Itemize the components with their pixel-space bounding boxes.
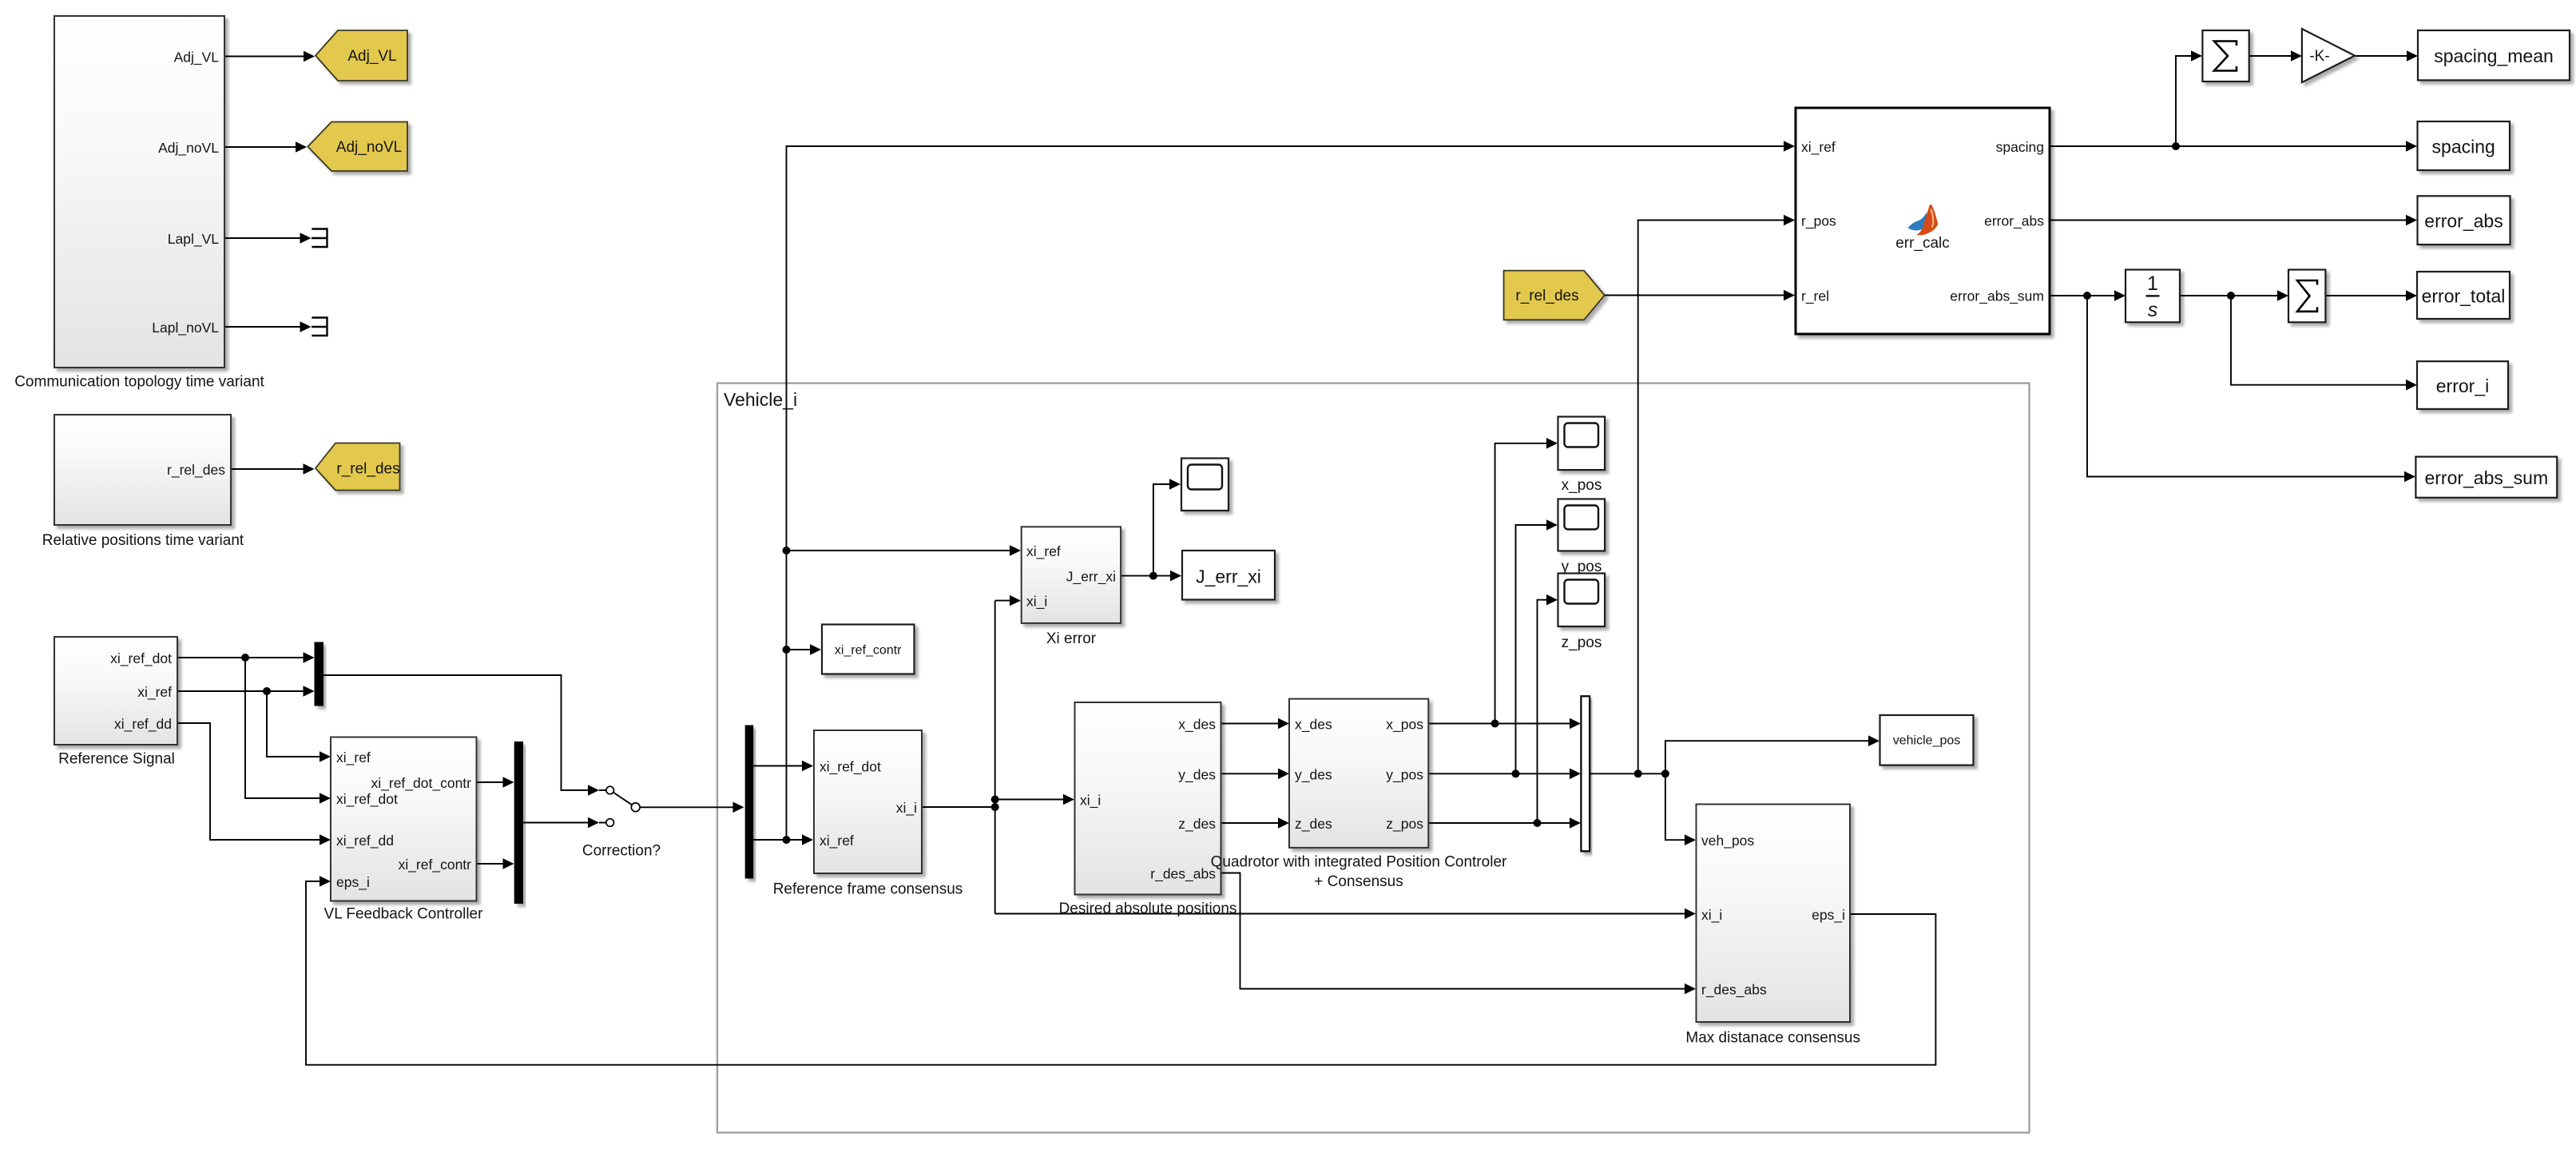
wire Lapl_VL to terminator — [224, 233, 312, 244]
svg-text:Adj_VL: Adj_VL — [347, 48, 396, 65]
svg-text:Relative positions time varian: Relative positions time variant — [42, 532, 244, 549]
wire Xi error output to J_err_xi display — [1121, 571, 1181, 582]
junction z_pos — [1534, 819, 1542, 827]
outport spacing_mean — [2418, 30, 2570, 80]
block xi_ref_contr — [822, 625, 915, 674]
block Reference frame consensus — [773, 730, 963, 898]
wire xi_ref_dd to VL Feedback Controller — [177, 723, 331, 845]
svg-text:spacing_mean: spacing_mean — [2434, 46, 2554, 66]
svg-text:xi_ref: xi_ref — [137, 684, 172, 701]
svg-text:x_des: x_des — [1295, 717, 1332, 734]
wire long xi_ref vertical and top run to err_calc — [787, 141, 1796, 840]
block VL Feedback Controller — [324, 738, 484, 923]
outport spacing — [2418, 121, 2511, 170]
svg-text:err_calc: err_calc — [1895, 235, 1950, 252]
svg-text:Max distanace consensus: Max distanace consensus — [1685, 1030, 1860, 1047]
wire xi_ref_dot from Reference Signal to mux — [177, 652, 315, 663]
svg-text:z_pos: z_pos — [1386, 816, 1423, 833]
wire branch x_pos to scope — [1495, 438, 1558, 724]
scope z_pos — [1558, 574, 1606, 652]
svg-text:Communication topology time va: Communication topology time variant — [14, 374, 264, 391]
From tag r_rel_des — [1504, 271, 1605, 320]
wire Reference frame consensus xi_i output — [922, 601, 995, 914]
svg-text:error_abs_sum: error_abs_sum — [1950, 288, 2044, 305]
subsystem boundary Vehicle_i — [717, 384, 2030, 1133]
svg-text:J_err_xi: J_err_xi — [1066, 569, 1116, 586]
wire y_des — [1221, 769, 1290, 780]
wire integrator to sum2 — [2180, 290, 2288, 301]
junction spacing branch — [2172, 142, 2180, 150]
svg-text:+ Consensus: + Consensus — [1314, 873, 1403, 890]
svg-text:vehicle_pos: vehicle_pos — [1893, 734, 1961, 748]
svg-text:x_pos: x_pos — [1562, 477, 1602, 494]
outport error_abs_sum — [2415, 457, 2557, 498]
junction xi_ref vertical at demux out2 — [783, 836, 791, 844]
svg-text:Reference Signal: Reference Signal — [58, 751, 175, 768]
wire branch z_pos to scope — [1538, 594, 1558, 823]
wire branch y_pos to scope — [1516, 519, 1558, 773]
svg-text:xi_ref_dot: xi_ref_dot — [336, 791, 398, 808]
svg-text:Lapl_noVL: Lapl_noVL — [152, 320, 219, 336]
svg-text:r_rel_des: r_rel_des — [1515, 288, 1578, 304]
wire branch xi_ref_dot down to VL Feedback Controller — [245, 658, 331, 804]
svg-text:r_rel: r_rel — [1801, 288, 1829, 305]
svg-text:xi_ref: xi_ref — [336, 749, 371, 766]
svg-text:xi_ref_dd: xi_ref_dd — [336, 833, 394, 849]
svg-text:Lapl_VL: Lapl_VL — [168, 231, 219, 248]
wire gain to spacing_mean — [2355, 50, 2418, 62]
junction r_pos — [1634, 769, 1642, 777]
svg-text:error_abs: error_abs — [1984, 213, 2044, 230]
junction J_err_xi branch — [1149, 572, 1157, 580]
wire x_des — [1221, 718, 1290, 730]
svg-text:r_rel_des: r_rel_des — [336, 461, 399, 478]
junction xi_ref branch — [263, 687, 271, 695]
block Quadrotor with integrated Position Controler + Consensus — [1211, 699, 1507, 890]
wire branch error_abs_sum down to outport — [2087, 296, 2415, 482]
svg-text:xi_ref: xi_ref — [1026, 543, 1061, 560]
wire branch to Max distance consensus xi_i — [995, 908, 1696, 920]
wire mux2 output to switch input 2 — [523, 817, 606, 829]
svg-text:Quadrotor with integrated Posi: Quadrotor with integrated Position Contr… — [1211, 854, 1507, 871]
svg-text:Xi error: Xi error — [1046, 630, 1097, 647]
wire branch to Xi error xi_i — [995, 595, 1021, 606]
wire demux out1 to Reference frame consensus xi_ref_dot — [753, 761, 813, 772]
block Relative positions time variant — [42, 415, 244, 549]
manual switch Correction? — [582, 786, 661, 859]
svg-text:xi_ref_dot: xi_ref_dot — [820, 759, 881, 776]
svg-text:xi_ref: xi_ref — [820, 833, 854, 849]
svg-text:VL Feedback Controller: VL Feedback Controller — [324, 906, 484, 923]
wire r_rel_des to goto tag — [231, 463, 315, 475]
terminator for Lapl_VL — [312, 229, 327, 248]
wire error_abs to outport — [2050, 215, 2417, 226]
integrator block 1/s — [2125, 270, 2180, 323]
junction x_pos — [1491, 720, 1499, 728]
svg-text:Reference frame consensus: Reference frame consensus — [773, 881, 963, 898]
outport error_abs — [2418, 196, 2511, 245]
svg-text:x_des: x_des — [1178, 717, 1216, 734]
wire branch down to error_i — [2231, 296, 2417, 391]
wire branch to xi_ref_contr block — [787, 644, 822, 655]
mux1 black bar — [315, 642, 324, 706]
svg-text:xi_i: xi_i — [1026, 594, 1047, 610]
svg-text:spacing: spacing — [1996, 139, 2044, 155]
wire demux out2 to Reference frame consensus xi_ref — [753, 834, 813, 845]
svg-text:error_abs_sum: error_abs_sum — [2424, 467, 2548, 488]
wire spacing output to outport — [2050, 141, 2417, 152]
wire mux4 output — [1590, 773, 1665, 774]
wire branch up to scope — [1153, 479, 1181, 575]
display block J_err_xi — [1182, 551, 1275, 600]
goto tag Adj_noVL — [308, 122, 407, 172]
junction xi_i split upper — [991, 796, 999, 804]
goto tag r_rel_des — [316, 443, 400, 491]
sum block sigma 2 — [2288, 270, 2325, 323]
svg-text:J_err_xi: J_err_xi — [1196, 567, 1261, 587]
svg-text:y_pos: y_pos — [1386, 766, 1423, 783]
svg-text:y_des: y_des — [1178, 766, 1216, 783]
svg-text:y_des: y_des — [1295, 766, 1332, 783]
svg-text:s: s — [2148, 299, 2158, 321]
svg-text:xi_ref_dd: xi_ref_dd — [114, 716, 172, 733]
wire Lapl_noVL to terminator — [224, 321, 312, 332]
svg-text:r_des_abs: r_des_abs — [1701, 982, 1767, 999]
junction error_abs_sum branch — [2083, 292, 2091, 300]
svg-text:r_pos: r_pos — [1801, 213, 1836, 230]
outport error_total — [2417, 272, 2510, 319]
block Desired absolute positions — [1059, 702, 1237, 917]
wire sum2 to error_total — [2325, 290, 2417, 301]
wire z_pos to mux — [1428, 817, 1581, 829]
wire mux1 output to switch input 1 — [323, 675, 606, 796]
svg-text:xi_ref_contr: xi_ref_contr — [835, 644, 902, 658]
junction at xi_ref_contr branch — [783, 646, 791, 654]
wire eps_i feedback from Max distance consensus to VL Feedback Controller — [306, 876, 1935, 1065]
svg-text:Desired absolute positions: Desired absolute positions — [1059, 901, 1237, 917]
svg-text:xi_ref_dot_contr: xi_ref_dot_contr — [371, 775, 472, 792]
block Reference Signal — [54, 637, 177, 768]
svg-text:veh_pos: veh_pos — [1701, 833, 1754, 849]
svg-text:Adj_noVL: Adj_noVL — [158, 140, 219, 157]
svg-text:1: 1 — [2147, 272, 2158, 295]
wire error_abs_sum to integrator — [2050, 290, 2125, 301]
svg-text:xi_ref: xi_ref — [1801, 139, 1836, 156]
svg-text:xi_i: xi_i — [1701, 907, 1722, 924]
wire y_pos to mux — [1428, 769, 1581, 780]
wire branch to veh_pos — [1665, 773, 1696, 845]
block Max distance consensus — [1685, 805, 1860, 1047]
demux black bar — [745, 726, 754, 879]
junction y_pos — [1512, 769, 1520, 777]
svg-text:spacing: spacing — [2432, 137, 2495, 157]
scope y_pos — [1558, 499, 1606, 576]
svg-text:eps_i: eps_i — [336, 874, 370, 891]
svg-text:Adj_noVL: Adj_noVL — [336, 139, 402, 156]
goto tag Adj_VL — [316, 30, 407, 81]
scope block near Xi error — [1181, 459, 1228, 511]
wire xi_ref from Reference Signal to mux — [177, 686, 315, 697]
outport error_i — [2417, 361, 2508, 409]
MATLAB logo inside err_calc — [1908, 205, 1939, 236]
wire r_des_abs to Max distance consensus — [1221, 873, 1697, 995]
junction error_i branch — [2227, 292, 2235, 300]
wire r_pos vertical up to err_calc — [1638, 215, 1795, 774]
svg-text:-K-: -K- — [2309, 48, 2329, 65]
svg-text:x_pos: x_pos — [1386, 717, 1423, 734]
mux4 outlined bar — [1581, 696, 1590, 851]
wire Adj_VL to goto tag — [224, 51, 315, 62]
gain block -K- — [2302, 29, 2355, 82]
wire branch to vehicle_pos — [1665, 735, 1879, 773]
sum block sigma 1 — [2202, 30, 2249, 82]
terminator for Lapl_noVL — [312, 318, 327, 336]
svg-text:xi_ref_contr: xi_ref_contr — [399, 857, 472, 873]
svg-text:error_total: error_total — [2422, 286, 2506, 307]
svg-text:xi_i: xi_i — [896, 800, 917, 817]
junction xi_ref_dot branch — [241, 654, 249, 662]
svg-text:z_des: z_des — [1295, 816, 1332, 833]
junction xi_i split lower — [991, 803, 999, 811]
svg-text:Correction?: Correction? — [582, 843, 661, 860]
scope x_pos — [1558, 417, 1606, 495]
wire switch output to demux — [640, 802, 744, 813]
MATLAB function block err_calc — [1796, 108, 2050, 334]
wire branch spacing up to sum — [2176, 50, 2202, 146]
wire VL xi_ref_contr to mux2 — [477, 858, 514, 869]
wire branch to Xi error xi_ref — [787, 545, 1022, 556]
junction vehicle_pos branch — [1661, 769, 1669, 777]
wire sum to gain — [2249, 50, 2302, 62]
mux2 black bar — [514, 741, 523, 904]
wire branch to Desired absolute positions xi_i — [995, 794, 1074, 805]
svg-text:error_i: error_i — [2436, 376, 2489, 396]
wire z_des — [1221, 817, 1290, 829]
svg-text:xi_i: xi_i — [1080, 793, 1101, 809]
svg-text:Adj_VL: Adj_VL — [174, 50, 220, 66]
wire branch xi_ref down to VL Feedback Controller — [267, 691, 331, 762]
wire From tag r_rel_des to err_calc r_rel — [1605, 290, 1795, 301]
block vehicle_pos — [1880, 715, 1974, 765]
wire VL xi_ref_dot_contr to mux2 — [477, 777, 514, 788]
wire Adj_noVL to goto tag — [224, 141, 307, 153]
block Xi error — [1022, 527, 1121, 647]
svg-text:r_rel_des: r_rel_des — [167, 462, 225, 479]
svg-text:xi_ref_dot: xi_ref_dot — [110, 650, 172, 667]
junction at Xi error branch — [783, 547, 791, 555]
svg-text:eps_i: eps_i — [1812, 907, 1845, 924]
svg-text:error_abs: error_abs — [2424, 211, 2503, 232]
block Communication topology time variant — [14, 16, 264, 391]
wire x_pos to mux — [1428, 718, 1581, 730]
svg-text:r_des_abs: r_des_abs — [1150, 866, 1216, 883]
svg-text:z_pos: z_pos — [1562, 634, 1602, 651]
svg-text:z_des: z_des — [1178, 816, 1216, 833]
